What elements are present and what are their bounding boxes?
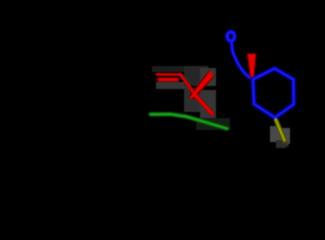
bond ester O to ring C3 (red) bbox=[196, 95, 213, 113]
bond C=O double bond outer line (red) bbox=[157, 73, 181, 75]
piperidine ring (blue hexagon) bbox=[253, 69, 294, 118]
wedge bond O-C2 (red, widening to upper right) bbox=[190, 71, 213, 99]
halo of wedge bond bbox=[189, 70, 215, 101]
halo glow under piperidine ring bbox=[253, 69, 294, 118]
bond N-CH3 (olive) bbox=[276, 120, 285, 142]
bond carbonyl C to ester O (red) bbox=[180, 74, 195, 95]
faint tail of N-CH3 bond bbox=[285, 141, 288, 146]
atom O of methyl ester (blue letter O) bbox=[227, 32, 234, 41]
halo glow under N-CH3 bond bbox=[275, 119, 284, 142]
halo glow under green bond bbox=[151, 114, 227, 128]
compression halo blocks around N-methyl bond bbox=[270, 126, 290, 148]
halo glow under red methyl wedge bbox=[246, 53, 257, 80]
compression halo along green bond bbox=[196, 118, 230, 130]
halo glow under red ester group bbox=[157, 74, 213, 113]
bond C=O double bond inner line (red) bbox=[158, 78, 177, 81]
wedge methyl on ring top-left carbon (red, pointing down) bbox=[248, 54, 255, 79]
bond chain from blue O down to ring C2 (blue) bbox=[232, 42, 253, 80]
bond C-C highlighted (green polyline) bbox=[151, 114, 227, 128]
compression halo blocks around ester group bbox=[152, 66, 216, 118]
halo glow under blue O and chain bbox=[227, 32, 252, 80]
